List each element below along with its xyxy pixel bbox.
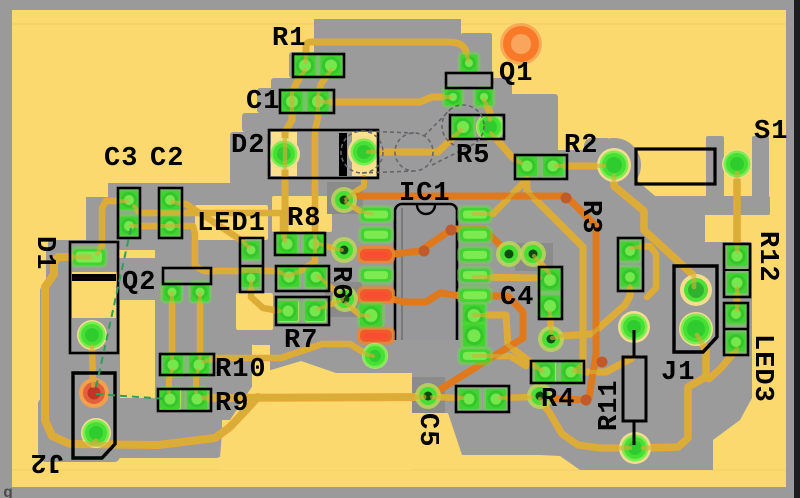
via V2 bbox=[331, 237, 357, 263]
wire: S1 left pad down to J1 top pad bbox=[614, 176, 694, 287]
IC1 right pin 2 bbox=[457, 225, 493, 244]
svg-text:R8: R8 bbox=[287, 204, 321, 234]
resistor R1 pads bbox=[292, 52, 319, 79]
IC1 left pin 5 (highlighted) bbox=[357, 286, 395, 304]
wire: via to C4 top diagonal bbox=[534, 256, 549, 273]
IC1 right pin 4 bbox=[457, 266, 493, 285]
copper pour: right column R3/J1/R12/LED3 bbox=[572, 188, 752, 400]
connector J1 outline bbox=[674, 266, 717, 352]
resistor R2 outline bbox=[515, 155, 567, 179]
wire: R8.right to via bbox=[317, 243, 342, 250]
diode D2 pads bbox=[268, 138, 300, 170]
orange wire: net from via(344,200) across top of IC1 to bottom right bbox=[344, 196, 596, 398]
wire: C2.top diagonal to LED1 top bbox=[172, 202, 249, 247]
LED1 outline bbox=[240, 238, 263, 292]
svg-text:R3: R3 bbox=[575, 200, 605, 234]
switch S1 pads bbox=[597, 148, 631, 182]
R7/R9/R4 thermal windows bbox=[279, 301, 299, 322]
via V1 bbox=[331, 187, 357, 213]
wire: via(540,396) down to R11 bottom net bbox=[540, 399, 630, 448]
via V5 bbox=[520, 241, 546, 267]
via V6 bbox=[538, 326, 564, 352]
wire: R3 top stub right of label bbox=[631, 246, 656, 297]
wire: R2.left long net down to R4.right bbox=[527, 179, 583, 371]
junction dot 5 bbox=[581, 395, 592, 406]
resistor R7 outline bbox=[276, 297, 329, 325]
diode D1 pads bbox=[70, 246, 108, 268]
capacitor C1 outline bbox=[280, 90, 334, 113]
dark screen edge strip right bbox=[794, 0, 800, 498]
D2 thermal windows bbox=[271, 132, 297, 176]
wire: LED3 bottom to J1 net bbox=[709, 349, 737, 379]
copper pour: bottom center/right region bbox=[345, 340, 752, 470]
via V4 bbox=[496, 241, 522, 267]
connector J2 pads bbox=[79, 378, 109, 408]
wire: R7.right to via bbox=[318, 300, 342, 309]
wire: via(345,299) to IC row6 left bbox=[346, 303, 369, 316]
wire: R2.left branch to IC1 pin row1 right bbox=[474, 182, 524, 214]
IC1 left pin 8 bbox=[362, 343, 388, 369]
svg-text:C3: C3 bbox=[104, 144, 138, 174]
orange wire: stub under R4 bbox=[544, 398, 584, 400]
via V8 bbox=[415, 383, 441, 409]
wire: J1 bottom pad loop to R11 bottom pad bbox=[643, 335, 706, 448]
IC1 left pin 1 bbox=[358, 205, 394, 224]
wire: C3.top to D1 top pad bbox=[97, 201, 127, 254]
wire: top net R1 to Q1 top pad bbox=[306, 42, 468, 62]
IC1 right pin 7 bbox=[460, 322, 488, 350]
orange wire: IC row5 right zigzag down to via(428,396) bbox=[376, 293, 523, 395]
capacitor C3 outline bbox=[118, 188, 140, 238]
capacitor C5 outline bbox=[456, 386, 509, 412]
via V3 bbox=[332, 286, 358, 312]
junction dot 2 bbox=[446, 225, 457, 236]
copper pour: left arm C3/C2/LED1 bbox=[46, 183, 270, 330]
diode D1 outline bbox=[70, 242, 118, 353]
capacitor C5 pads bbox=[456, 386, 482, 412]
connector J2 outline bbox=[73, 373, 115, 458]
wire: C3 top area horizontal to R8.left bbox=[134, 206, 283, 238]
yellow window around LED1 label bbox=[195, 205, 268, 240]
junction dot 3 bbox=[561, 193, 572, 204]
wire: via C4 to R3 bottom bbox=[552, 286, 630, 338]
wire: D2 right pad to R5.left bbox=[368, 130, 461, 152]
svg-text:IC1: IC1 bbox=[399, 179, 451, 209]
wire: R6.right to via bbox=[318, 276, 343, 297]
yellow window below LED1 bbox=[236, 293, 273, 330]
svg-text:LED1: LED1 bbox=[197, 209, 266, 239]
IC1 right pin 6 bbox=[460, 302, 488, 330]
yellow window inside D1 body bbox=[72, 282, 116, 318]
resistor R5 pads bbox=[450, 114, 477, 141]
orange marker pad near Q1 bbox=[500, 23, 542, 65]
via V7 bbox=[527, 383, 553, 409]
transistor Q2 outline bbox=[163, 268, 211, 284]
resistor R10 outline bbox=[160, 354, 214, 375]
resistor R1 outline bbox=[293, 54, 344, 77]
IC1 right pin 1 bbox=[457, 205, 493, 224]
junction dot 4 bbox=[597, 357, 608, 368]
resistor R8 outline bbox=[275, 233, 325, 255]
resistor R6 outline bbox=[276, 266, 329, 291]
svg-text:R10: R10 bbox=[215, 355, 267, 385]
resistor R12 outline bbox=[724, 244, 750, 297]
resistor R8 pads bbox=[274, 231, 300, 257]
resistor R10 pads bbox=[160, 352, 186, 378]
capacitor C4 outline bbox=[539, 267, 562, 319]
IC1 right pin 5 bbox=[457, 286, 493, 305]
resistor R9 pads bbox=[157, 386, 183, 412]
svg-text:R7: R7 bbox=[284, 326, 318, 356]
wire: R5 right pad down to R2.left bbox=[491, 133, 521, 163]
wire overlay pass (trace sheen over pads) bbox=[45, 42, 737, 448]
wire: IC1 row8 right to R4 area bbox=[474, 356, 526, 366]
svg-text:C5: C5 bbox=[412, 413, 442, 447]
svg-text:S1: S1 bbox=[754, 117, 788, 147]
wire: via to C5.left bbox=[432, 397, 462, 398]
transistor Q1 pads bbox=[458, 52, 481, 75]
resistor R11 pads bbox=[618, 311, 650, 343]
svg-text:R4: R4 bbox=[541, 385, 575, 415]
IC1 right pin 8 bbox=[457, 346, 493, 365]
wire: R4.right to lower right bbox=[577, 358, 632, 372]
svg-text:Q1: Q1 bbox=[499, 59, 533, 89]
svg-text:D2: D2 bbox=[231, 131, 265, 161]
resistor R6 pads bbox=[276, 264, 302, 290]
LED3 outline bbox=[724, 303, 748, 355]
svg-text:C4: C4 bbox=[500, 283, 534, 313]
wire: R1.1 via C1.1 down to D2 left pad and R8.left bbox=[285, 70, 305, 241]
wire: IC1 row4 right to C4 top bbox=[474, 277, 540, 278]
wire: S1 right pad down to R12 top bbox=[733, 173, 741, 251]
svg-text:g: g bbox=[3, 484, 13, 498]
resistor R3 outline bbox=[618, 238, 643, 291]
resistor R7 pads bbox=[275, 298, 301, 324]
wire: C3.bottom to C2.bottom to R6.left bbox=[131, 226, 287, 276]
wire: R10 to R9 stubs bbox=[169, 370, 172, 392]
svg-text:R5: R5 bbox=[456, 141, 490, 171]
LED1 pads bbox=[239, 238, 263, 262]
IC1 left pin 3 (highlighted) bbox=[357, 246, 395, 264]
copper pour: R2 / S1 strip bbox=[490, 94, 770, 236]
wire: R12 bottom to LED3 top bbox=[734, 288, 741, 310]
wire: C5.right to via(540,396) bbox=[500, 397, 532, 398]
copper pour: Q2/R10/R9 block bbox=[155, 247, 252, 420]
resistor R11 outline bbox=[623, 357, 646, 421]
svg-text:R2: R2 bbox=[564, 131, 598, 161]
copper pour: top blob around R1/C1/D2/Q1/R5 bbox=[230, 19, 544, 185]
svg-text:C2: C2 bbox=[150, 144, 184, 174]
svg-text:R11: R11 bbox=[595, 379, 625, 431]
capacitor C3 pads bbox=[117, 188, 142, 213]
switch S1 outline bbox=[636, 149, 715, 184]
svg-text:Q2: Q2 bbox=[122, 268, 156, 298]
svg-text:J2: J2 bbox=[30, 446, 64, 476]
IC1 left pin 2 bbox=[358, 225, 394, 244]
capacitor C2 pads bbox=[158, 188, 183, 213]
copper pour: J2 block bottom-left bbox=[38, 285, 222, 462]
wire: Q1 right pad to R5 right pad bbox=[484, 100, 490, 120]
IC1 left pin 6 bbox=[357, 302, 385, 330]
wire: bottom-left loop D1.top to R9 net bbox=[45, 257, 258, 445]
LED3 pads bbox=[724, 302, 749, 327]
resistor R3 pads bbox=[618, 239, 643, 264]
svg-text:C1: C1 bbox=[246, 87, 280, 117]
wire: D1 bottom pad to J2 bbox=[92, 346, 93, 386]
copper pour: central region (R8..IC1..C4) bbox=[236, 182, 598, 373]
darker pad zone patches bbox=[327, 182, 363, 214]
wire: via(344,200) to IC row1 left bbox=[346, 202, 372, 214]
wire: R1.2 via C1.2 down through D2 body bbox=[289, 70, 331, 276]
svg-text:D1: D1 bbox=[29, 236, 59, 270]
wire: Q2 pads down to R10 bbox=[169, 294, 176, 358]
svg-text:R6: R6 bbox=[325, 266, 355, 300]
resistor R4 pads bbox=[532, 359, 558, 385]
svg-text:R12: R12 bbox=[752, 231, 782, 283]
wire: LED1 bottom to R7.left bbox=[251, 282, 280, 311]
orange wire: IC row3 left to via(509,254) bbox=[376, 229, 505, 256]
resistor R5 outline bbox=[450, 115, 504, 139]
svg-text:R1: R1 bbox=[272, 24, 306, 54]
transistor Q2 pads bbox=[160, 280, 184, 304]
resistor R9 outline bbox=[158, 389, 211, 411]
wire: R9.right horizontal to C5 via bbox=[203, 397, 424, 398]
wire: J2 green pad stub bbox=[92, 440, 96, 444]
capacitor C1 pads bbox=[279, 88, 306, 115]
dashed courtyard circles near D2/R5 bbox=[341, 105, 484, 173]
IC U1/IC1 body bbox=[395, 204, 457, 366]
wire: C1.2 right to Q1 left pad bbox=[322, 97, 450, 102]
yellow wedge below R9/R7 (board window) bbox=[219, 361, 412, 470]
junction dot 1 bbox=[419, 246, 430, 257]
capacitor C2 outline bbox=[159, 188, 182, 238]
transistor Q1 outline bbox=[446, 73, 492, 88]
svg-text:LED3: LED3 bbox=[747, 334, 777, 403]
diode D2 outline bbox=[269, 130, 378, 178]
IC1 left pin 7 (highlighted) bbox=[357, 327, 395, 345]
svg-text:R9: R9 bbox=[215, 389, 249, 419]
IC1 right pin 3 bbox=[457, 245, 493, 264]
wire: C4 bottom to via bbox=[550, 312, 551, 333]
capacitor C4 pads bbox=[537, 267, 564, 294]
wire: via(344,200) up to D2 right pad bbox=[346, 178, 364, 199]
resistor R4 outline bbox=[531, 361, 584, 383]
resistor R12 pads bbox=[724, 243, 750, 269]
wire: IC1 row6 right to R4.left bbox=[474, 315, 542, 371]
yellow window around R8 label bbox=[272, 196, 332, 232]
connector J1 pads bbox=[680, 274, 712, 306]
resistor R2 pads bbox=[514, 153, 540, 179]
IC1 left pin 4 bbox=[358, 266, 394, 285]
svg-text:J1: J1 bbox=[661, 358, 695, 388]
ratsnest dashed green lines bbox=[95, 228, 166, 399]
wire: R2 right pad to S1 left pad bbox=[556, 163, 604, 170]
wire: R10.right to IC row8 left bbox=[203, 344, 373, 362]
